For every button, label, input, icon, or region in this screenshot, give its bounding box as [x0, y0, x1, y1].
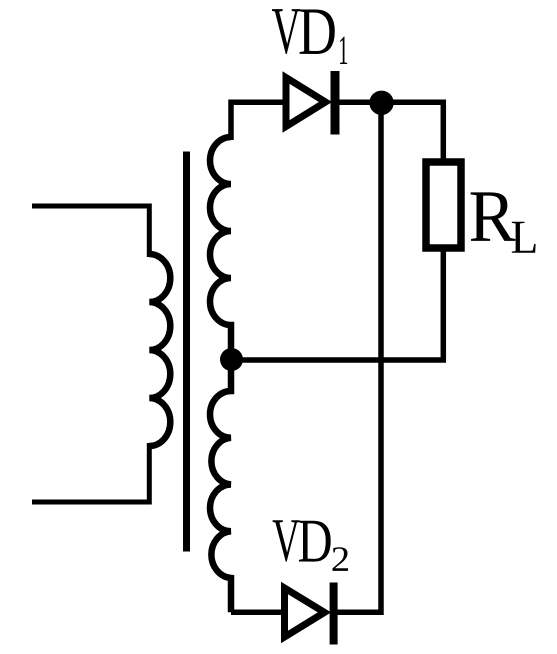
label VD1: [272, 9, 300, 54]
transformer secondary lower half: [210, 364, 231, 612]
diode VD1 cathode bar: [331, 71, 340, 135]
diode VD2 triangle: [285, 588, 325, 637]
wire secondary bottom to VD2: [231, 610, 282, 616]
center tap node: [220, 348, 243, 371]
label RL subscript L: [512, 222, 536, 253]
label RL: [471, 192, 516, 241]
wire VD2 output up to junction: [336, 103, 381, 613]
wire center tap to RL bottom: [232, 250, 444, 360]
label VD2 subscript 2: [332, 547, 348, 571]
diode VD1 triangle: [286, 78, 326, 127]
wire primary top lead: [32, 206, 149, 257]
label VD1 subscript 1: [340, 37, 347, 64]
label VD2: [273, 520, 300, 561]
transformer core: [183, 152, 190, 552]
wire primary bottom lead: [32, 443, 149, 502]
diode VD2 cathode bar: [330, 583, 338, 645]
transformer primary winding: [149, 254, 170, 446]
wire VD1 output to junction to RL top: [337, 102, 443, 160]
wire secondary top lead: [231, 102, 283, 140]
transformer secondary upper half: [210, 137, 231, 355]
resistor RL body: [426, 162, 461, 248]
junction node A: [369, 91, 393, 115]
